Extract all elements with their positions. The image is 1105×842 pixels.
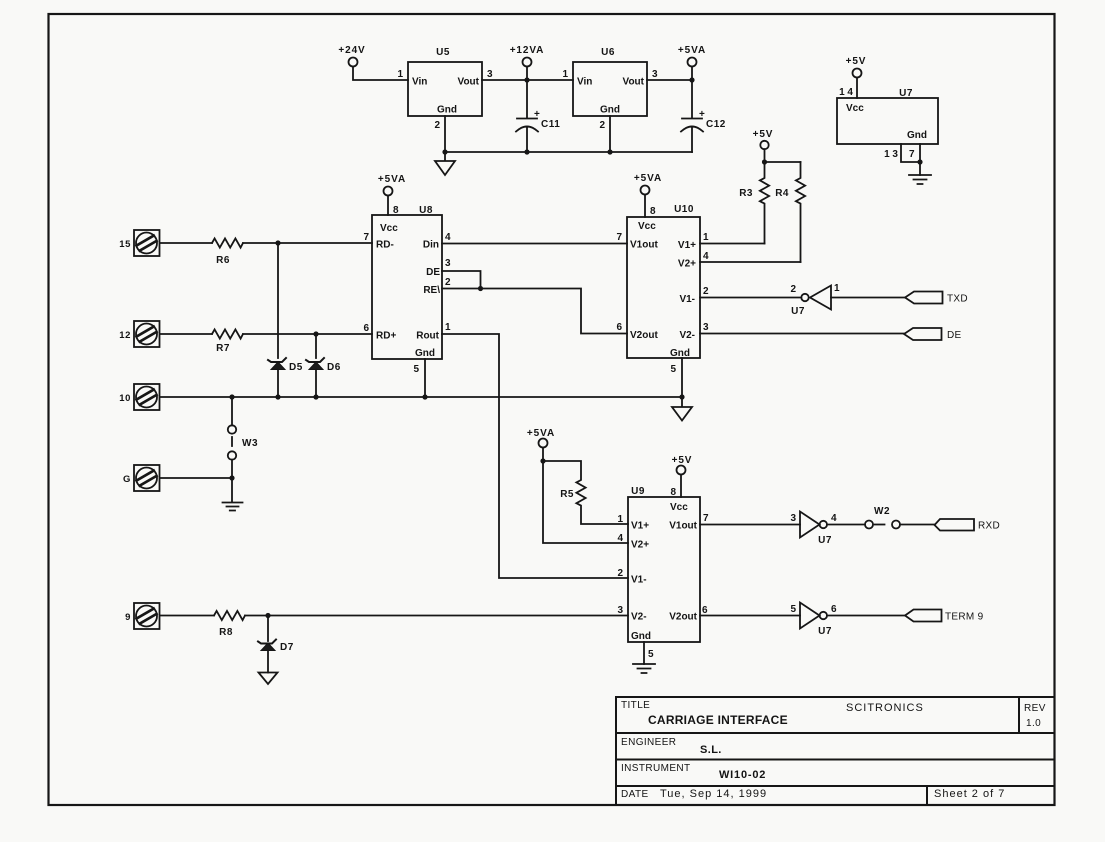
svg-text:Vout: Vout <box>458 77 480 88</box>
svg-text:5: 5 <box>790 604 796 615</box>
power terminal +5VA U9 <box>539 439 548 448</box>
svg-text:TXD: TXD <box>947 294 968 305</box>
node dot C11 gnd <box>524 149 529 154</box>
node dot U10 gnd <box>679 394 684 399</box>
title block row divider 2 <box>616 759 1055 761</box>
svg-text:Gnd: Gnd <box>600 105 620 116</box>
node dot D7 <box>265 613 270 618</box>
wire U7 pin 7 gnd <box>919 144 921 175</box>
svg-text:C12: C12 <box>706 119 726 130</box>
svg-text:U10: U10 <box>674 204 694 215</box>
earth ground U7 <box>909 175 931 184</box>
power terminal +12VA <box>523 58 532 67</box>
node dot U6 gnd <box>607 149 612 154</box>
svg-text:+5VA: +5VA <box>527 428 555 439</box>
svg-text:+: + <box>699 109 705 120</box>
svg-text:U6: U6 <box>601 47 615 58</box>
wire inverter to W2 <box>827 524 865 526</box>
svg-text:U5: U5 <box>436 47 450 58</box>
svg-text:5: 5 <box>413 364 419 375</box>
svg-text:+5VA: +5VA <box>678 45 706 56</box>
power terminal +5VA U8 <box>384 187 393 196</box>
node dot D6 gnd <box>313 394 318 399</box>
earth ground U9 <box>633 664 655 673</box>
node dot +12VA <box>524 77 529 82</box>
wire terminal 9 to R8 <box>160 615 214 617</box>
svg-text:Gnd: Gnd <box>631 631 651 642</box>
connector TERM 9 <box>905 610 942 622</box>
svg-text:Vout: Vout <box>623 77 645 88</box>
svg-text:10: 10 <box>119 393 131 404</box>
wire inverter to TXD <box>831 297 905 299</box>
jumper W2 <box>865 521 873 529</box>
svg-text:+12VA: +12VA <box>510 45 545 56</box>
svg-text:+5VA: +5VA <box>378 174 406 185</box>
svg-text:Din: Din <box>423 240 439 251</box>
wire W2 to RXD <box>900 524 935 526</box>
svg-text:TITLE: TITLE <box>621 700 650 711</box>
wire D6 branch <box>315 334 317 358</box>
svg-text:Rout: Rout <box>416 331 439 342</box>
svg-text:7: 7 <box>616 232 622 243</box>
wire U9 pin 5 gnd <box>643 642 645 664</box>
svg-text:6: 6 <box>616 322 622 333</box>
wire U7 pin 13 <box>901 144 920 162</box>
svg-text:ENGINEER: ENGINEER <box>621 737 676 748</box>
svg-text:1: 1 <box>562 69 568 80</box>
node dot U5 gnd <box>442 149 447 154</box>
svg-text:V1-: V1- <box>631 575 647 586</box>
svg-text:1: 1 <box>397 69 403 80</box>
svg-text:3: 3 <box>617 605 623 616</box>
svg-text:INSTRUMENT: INSTRUMENT <box>621 763 691 774</box>
wire +24V to U5 pin 1 <box>353 67 408 81</box>
svg-text:1: 1 <box>445 322 451 333</box>
title block outer box <box>616 697 1055 805</box>
wire DE jog <box>442 271 481 289</box>
svg-text:W2: W2 <box>874 506 890 517</box>
svg-text:U9: U9 <box>631 486 645 497</box>
title block row divider 3 <box>616 785 1055 787</box>
svg-text:3: 3 <box>703 322 709 333</box>
wire U6 Vout pin 3 <box>647 79 692 81</box>
svg-text:V1out: V1out <box>630 240 658 251</box>
resistor R4 <box>796 162 805 262</box>
svg-text:W3: W3 <box>242 438 258 449</box>
node dot DE/RE <box>478 286 483 291</box>
svg-text:8: 8 <box>650 206 656 217</box>
svg-text:DE: DE <box>426 267 440 278</box>
svg-text:5: 5 <box>670 364 676 375</box>
svg-text:G: G <box>123 474 131 485</box>
svg-text:Tue, Sep 14, 1999: Tue, Sep 14, 1999 <box>660 788 767 800</box>
power terminal +24V <box>349 58 358 67</box>
inverter U7 RXD <box>800 512 820 538</box>
wire V2+ to R4 <box>700 261 801 263</box>
svg-text:+: + <box>534 109 540 120</box>
wire D5 branch <box>277 243 279 358</box>
node dot RD- / D5 <box>275 240 280 245</box>
svg-text:+5VA: +5VA <box>634 173 662 184</box>
capacitor C11 <box>516 80 538 152</box>
svg-text:2: 2 <box>617 568 623 579</box>
svg-text:2: 2 <box>434 120 440 131</box>
svg-text:7: 7 <box>703 513 709 524</box>
resistor R3 <box>760 162 769 244</box>
svg-text:R3: R3 <box>739 188 753 199</box>
svg-text:2: 2 <box>790 284 796 295</box>
svg-text:REV: REV <box>1024 703 1046 714</box>
wire terminal 15 to R6 <box>160 242 212 244</box>
title block row divider 1 <box>616 732 1055 734</box>
inverter U7 TERM9 <box>800 603 820 629</box>
power terminal +5V U7 <box>853 69 862 78</box>
wire U5 Gnd pin 2 <box>444 116 446 152</box>
resistor R6 <box>212 238 243 247</box>
wire V2- to DE <box>700 333 904 335</box>
svg-text:V2-: V2- <box>631 612 647 623</box>
wire terminal 12 to R7 <box>160 333 212 335</box>
svg-text:1: 1 <box>703 232 709 243</box>
ic U10 <box>627 217 700 358</box>
svg-text:U7: U7 <box>899 88 913 99</box>
svg-text:12: 12 <box>119 330 131 341</box>
wire V1- to inverter <box>700 297 801 299</box>
wire V1+ to R3 <box>700 243 765 245</box>
svg-text:6: 6 <box>363 323 369 334</box>
svg-text:D7: D7 <box>280 642 294 653</box>
svg-text:15: 15 <box>119 239 131 250</box>
power terminal +5V U9 <box>677 466 686 475</box>
wire inverter to TERM9 <box>827 615 905 617</box>
power terminal +5VA top <box>688 58 697 67</box>
wire U6 Gnd pin 2 <box>609 116 611 152</box>
svg-text:U8: U8 <box>419 205 433 216</box>
wire U10 pin 5 gnd <box>681 358 683 397</box>
wire net 10 bus <box>160 396 682 398</box>
svg-text:V2out: V2out <box>669 612 697 623</box>
svg-text:TERM 9: TERM 9 <box>945 612 984 623</box>
terminal G <box>134 465 160 491</box>
regulator U6 <box>573 62 647 116</box>
svg-text:4: 4 <box>703 251 709 262</box>
svg-text:D6: D6 <box>327 362 341 373</box>
wire +5V to U7 pin 14 <box>856 78 858 99</box>
power terminal +5VA U10 <box>641 186 650 195</box>
svg-text:4: 4 <box>831 513 837 524</box>
resistor R7 <box>212 329 243 338</box>
svg-text:U7: U7 <box>791 306 805 317</box>
wire terminal G to W3 <box>160 477 232 479</box>
ic U9 <box>628 497 700 642</box>
svg-text:DATE: DATE <box>621 789 649 800</box>
ground triangle <box>435 152 455 175</box>
svg-text:4: 4 <box>617 533 623 544</box>
connector TXD <box>905 292 943 304</box>
wire Rout to U9 V1- <box>442 334 628 578</box>
svg-text:R7: R7 <box>216 343 230 354</box>
svg-text:3: 3 <box>487 69 493 80</box>
svg-text:Gnd: Gnd <box>415 348 435 359</box>
wire +5VA to node <box>691 67 693 81</box>
svg-text:Vcc: Vcc <box>670 502 688 513</box>
resistor R5 <box>543 461 628 524</box>
svg-text:WI10-02: WI10-02 <box>719 769 766 781</box>
wire R8 to U9 V2- <box>245 615 628 617</box>
node dot W3 tap <box>229 394 234 399</box>
svg-text:7: 7 <box>363 232 369 243</box>
diode D6 <box>306 358 324 362</box>
terminal 10 <box>134 384 160 410</box>
svg-text:V1+: V1+ <box>678 240 696 251</box>
svg-text:RD+: RD+ <box>376 331 396 342</box>
svg-text:7: 7 <box>909 149 915 160</box>
svg-text:4: 4 <box>445 232 451 243</box>
node dot U7 gnd <box>917 159 922 164</box>
earth ground W3 <box>223 478 243 511</box>
svg-text:SCITRONICS: SCITRONICS <box>846 702 924 714</box>
ic U8 <box>372 215 442 359</box>
svg-text:RE\: RE\ <box>423 285 440 296</box>
svg-text:C11: C11 <box>541 119 560 130</box>
svg-text:RD-: RD- <box>376 240 394 251</box>
svg-text:R5: R5 <box>560 489 574 500</box>
svg-text:1.0: 1.0 <box>1026 718 1041 729</box>
svg-text:V1+: V1+ <box>631 521 649 532</box>
svg-text:V2out: V2out <box>630 330 658 341</box>
diode D5 <box>268 358 286 362</box>
svg-text:Sheet 2 of 7: Sheet 2 of 7 <box>934 788 1005 800</box>
power terminal +5V R3R4 <box>760 141 768 149</box>
capacitor C12 <box>681 80 703 152</box>
svg-text:+5V: +5V <box>672 455 693 466</box>
svg-text:3: 3 <box>652 69 658 80</box>
svg-text:RXD: RXD <box>978 521 1000 532</box>
svg-text:V2-: V2- <box>679 330 695 341</box>
wire V2out U9 to inverter <box>700 615 800 617</box>
svg-text:6: 6 <box>831 604 837 615</box>
svg-text:Vcc: Vcc <box>846 103 864 114</box>
svg-text:Gnd: Gnd <box>907 130 927 141</box>
title block sheet divider <box>926 786 928 805</box>
wire RE to V2out <box>442 289 627 334</box>
wire U5 Vout pin 3 to U6 pin 1 <box>482 79 573 81</box>
connector DE <box>904 328 942 340</box>
svg-text:R8: R8 <box>219 627 233 638</box>
svg-text:Vcc: Vcc <box>380 223 398 234</box>
svg-text:8: 8 <box>670 487 676 498</box>
ground bus wire <box>445 151 692 153</box>
ic U7 power block <box>837 98 938 144</box>
wire Din to V1out <box>442 243 627 245</box>
inverter U7 TXD <box>801 294 808 301</box>
node dot D5 gnd <box>275 394 280 399</box>
svg-text:+5V: +5V <box>753 129 774 140</box>
svg-text:Vcc: Vcc <box>638 221 656 232</box>
svg-text:R6: R6 <box>216 255 230 266</box>
node dot U8 gnd tap <box>422 394 427 399</box>
ground triangle U10 <box>672 397 692 421</box>
terminal 12 <box>134 321 160 347</box>
svg-text:D5: D5 <box>289 362 303 373</box>
node dot RD+ / D6 <box>313 331 318 336</box>
svg-text:1: 1 <box>617 514 623 525</box>
svg-text:V2+: V2+ <box>678 259 696 270</box>
svg-text:1 4: 1 4 <box>839 87 853 98</box>
svg-text:8: 8 <box>393 205 399 216</box>
svg-text:Vin: Vin <box>577 77 592 88</box>
diode D7 <box>267 616 269 642</box>
svg-text:6: 6 <box>702 605 708 616</box>
node dot R3 top <box>762 159 767 164</box>
svg-text:R4: R4 <box>775 188 789 199</box>
svg-text:CARRIAGE INTERFACE: CARRIAGE INTERFACE <box>648 713 788 727</box>
svg-text:V1out: V1out <box>669 521 697 532</box>
ground triangle D7 <box>259 673 278 685</box>
jumper W3 <box>231 397 233 425</box>
wire +5VA to V2+ U9 <box>543 461 628 543</box>
svg-text:Gnd: Gnd <box>437 105 457 116</box>
svg-text:Gnd: Gnd <box>670 348 690 359</box>
svg-text:2: 2 <box>445 277 451 288</box>
svg-text:S.L.: S.L. <box>700 744 722 756</box>
svg-text:2: 2 <box>703 286 709 297</box>
wire R3R4 top <box>765 161 801 163</box>
svg-text:DE: DE <box>947 330 962 341</box>
svg-text:3: 3 <box>790 513 796 524</box>
svg-text:1 3: 1 3 <box>884 149 898 160</box>
wire R7 to U8 pin 6 <box>243 333 372 335</box>
wire V1out U9 to inverter <box>700 524 800 526</box>
wire +12VA to node <box>526 67 528 81</box>
svg-text:Vin: Vin <box>412 77 427 88</box>
terminal 9 <box>134 603 160 629</box>
node dot W3 gnd <box>229 475 234 480</box>
svg-text:+24V: +24V <box>338 45 365 56</box>
title block REV divider <box>1018 697 1020 733</box>
resistor R8 <box>214 611 245 620</box>
svg-text:U7: U7 <box>818 626 832 637</box>
wire U8 pin 5 gnd <box>424 359 426 397</box>
svg-text:3: 3 <box>445 258 451 269</box>
svg-text:U7: U7 <box>818 535 832 546</box>
node dot +5VA <box>689 77 694 82</box>
svg-text:V2+: V2+ <box>631 540 649 551</box>
svg-text:2: 2 <box>599 120 605 131</box>
connector RXD <box>935 519 975 531</box>
svg-text:V1-: V1- <box>679 294 695 305</box>
terminal 15 <box>134 230 160 256</box>
node dot R5 <box>540 458 545 463</box>
svg-text:9: 9 <box>125 612 131 623</box>
svg-text:+5V: +5V <box>846 56 867 67</box>
svg-text:5: 5 <box>648 649 654 660</box>
svg-text:1: 1 <box>834 283 840 294</box>
regulator U5 <box>408 62 482 116</box>
wire R6 to U8 pin 7 <box>243 242 372 244</box>
